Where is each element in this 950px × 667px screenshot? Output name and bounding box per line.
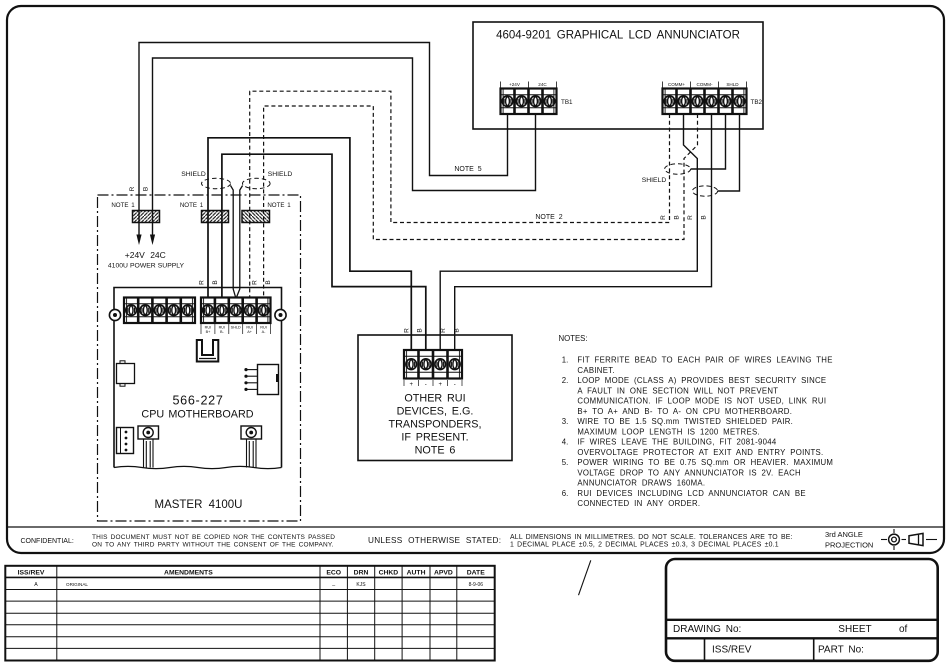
wire +24V red from TB1-1 to power supply [139,43,508,236]
svg-text:ALL DIMENSIONS IN MILLIMETRES.: ALL DIMENSIONS IN MILLIMETRES. DO NOT SC… [510,534,793,541]
svg-text:R: R [129,186,136,191]
svg-text:CONFIDENTIAL:: CONFIDENTIAL: [21,538,74,545]
LCD annunciator enclosure box [473,22,763,129]
svg-text:5.: 5. [562,458,569,467]
TB1 group ticks and labels [501,82,557,88]
svg-text:ISS/REV: ISS/REV [712,645,752,656]
svg-text:3.: 3. [562,417,569,426]
svg-text:-: - [454,382,456,388]
svg-text:ECO: ECO [326,570,341,577]
svg-text:RUI DEVICES INCLUDING LCD ANNU: RUI DEVICES INCLUDING LCD ANNUNCIATOR CA… [577,489,805,498]
svg-text:SHIELD: SHIELD [268,171,293,178]
svg-text:ANNUNCIATOR DRAWS 160MA.: ANNUNCIATOR DRAWS 160MA. [577,479,705,488]
svg-text:DRN: DRN [354,570,369,577]
mounting screw left [109,309,120,320]
motherboard RUI terminal block [201,298,271,324]
svg-text:NOTE 5: NOTE 5 [454,166,481,173]
TB2 group ticks and labels [663,82,747,88]
small component left [117,364,135,384]
ferrite bead F1 (note 1) [133,211,160,223]
svg-text:+24V: +24V [509,82,521,87]
svg-text:24C: 24C [150,250,166,260]
svg-text:-: - [425,382,427,388]
svg-text:SHLD: SHLD [726,82,739,87]
svg-text:8-9-06: 8-9-06 [469,582,484,588]
third angle projection symbol [881,529,937,550]
ferrite bead F2 (note 1) [202,211,229,223]
jumper bracket component [197,340,219,362]
wire RUI B+ red [208,138,411,350]
shield ellipse left + label [202,178,231,188]
svg-text:CHKD: CHKD [379,570,399,577]
title block [666,559,938,661]
svg-text:OTHER RUI: OTHER RUI [404,393,465,405]
svg-text:RUI: RUI [260,326,267,330]
svg-text:NOTE 1: NOTE 1 [267,202,291,209]
svg-text:TB1: TB1 [561,99,573,106]
svg-text:DEVICES, E.G.: DEVICES, E.G. [397,406,474,418]
svg-text:R: R [440,328,447,333]
svg-text:MAXIMUM LOOP LENGTH IS 1200 ME: MAXIMUM LOOP LENGTH IS 1200 METRES. [577,427,760,436]
cabinet boundary (dash-dot) [98,195,301,521]
svg-text:B: B [674,215,681,219]
svg-text:COMM-: COMM- [696,82,713,87]
svg-text:566-227: 566-227 [172,394,223,408]
svg-text:AMENDMENTS: AMENDMENTS [164,570,213,577]
shield ellipse right + label [242,178,270,188]
svg-text:POWER WIRING TO BE 0.75 SQ.mm: POWER WIRING TO BE 0.75 SQ.mm OR HEAVIER… [577,458,833,467]
svg-text:AUTH: AUTH [407,570,426,577]
svg-text:1 DECIMAL PLACE ±0.5, 2 DECIMA: 1 DECIMAL PLACE ±0.5, 2 DECIMAL PLACES ±… [510,541,779,548]
svg-text:6.: 6. [562,489,569,498]
svg-text:+: + [438,382,442,388]
svg-text:B: B [212,280,219,284]
wire 24C black from TB1-3 to power supply [153,58,536,235]
svg-text:APVD: APVD [434,570,453,577]
wire RUI B- black [222,154,426,350]
svg-text:+: + [409,382,413,388]
svg-text:COMM+: COMM+ [668,82,686,87]
svg-text:RUI: RUI [219,326,226,330]
terminal block TB2 [663,89,747,115]
svg-text:IF WIRES LEAVE THE BUILDING, F: IF WIRES LEAVE THE BUILDING, FIT 2081-90… [577,438,776,447]
4-pin connector right [258,365,279,395]
svg-text:VOLTAGE DROP TO ANY ANNUNCIATO: VOLTAGE DROP TO ANY ANNUNCIATOR IS 2V. E… [577,468,801,477]
svg-text:NOTE 6: NOTE 6 [415,445,456,457]
standoff left [138,426,159,439]
svg-text:WIRE TO BE 1.5 SQ.mm TWISTED S: WIRE TO BE 1.5 SQ.mm TWISTED SHIELDED PA… [577,417,793,426]
svg-text:PROJECTION: PROJECTION [825,541,873,550]
svg-text:B: B [143,187,150,191]
svg-text:3rd ANGLE: 3rd ANGLE [825,530,863,539]
wire COMM+ red from TB2-2 to RUI box [440,114,697,350]
svg-text:R: R [252,280,259,285]
standoff right [241,426,262,439]
svg-text:B+: B+ [206,330,212,334]
shield ellipse under TB2 upper [665,164,691,174]
motherboard bottom break (wavy) [114,466,282,468]
svg-text:ISS/REV: ISS/REV [18,570,45,577]
svg-text:SHLD: SHLD [231,326,241,330]
CPU motherboard outline [114,288,282,468]
svg-text:UNLESS OTHERWISE STATED:: UNLESS OTHERWISE STATED: [368,536,501,545]
svg-text:NOTE 2: NOTE 2 [535,214,562,221]
leader slash mark [579,560,591,595]
revision table [5,566,494,661]
svg-text:B: B [454,328,461,332]
RUI device polarity labels [404,380,462,386]
svg-text:B+ TO A+ AND B- TO A- ON CPU M: B+ TO A+ AND B- TO A- ON CPU MOTHERBOARD… [577,407,792,416]
svg-text:ON TO ANY THIRD PARTY WITHOUT: ON TO ANY THIRD PARTY WITHOUT THE CONSEN… [92,541,334,548]
svg-text:A: A [34,582,38,588]
wire RUI A- dashed from TB2-3 [264,106,698,298]
svg-text:NOTE 1: NOTE 1 [111,202,135,209]
svg-text:SHEET: SHEET [838,624,871,635]
svg-text:A FAULT IN ONE SECTION WILL NO: A FAULT IN ONE SECTION WILL NOT PREVENT [577,386,778,395]
svg-text:4604-9201 GRAPHICAL LCD ANN: 4604-9201 GRAPHICAL LCD ANNUNCIATOR [496,30,740,42]
wire RUI A+ dashed from TB2-1 [250,91,670,297]
svg-text:CPU MOTHERBOARD: CPU MOTHERBOARD [141,409,253,421]
other RUI devices box [358,335,512,461]
motherboard left terminal block [124,298,195,324]
edge connector 4-pin [117,428,134,454]
svg-text:ORIGINAL: ORIGINAL [66,582,88,587]
svg-text:PART No:: PART No: [818,645,864,656]
svg-text:B: B [701,215,708,219]
RUI device terminal block [404,350,462,379]
RUI terminal labels [201,324,271,334]
svg-text:4100U POWER SUPPLY: 4100U POWER SUPPLY [108,263,185,270]
svg-text:SHIELD: SHIELD [642,177,667,184]
svg-text:+24V: +24V [125,250,145,260]
svg-text:B: B [265,280,272,284]
svg-text:NOTE 1: NOTE 1 [180,202,204,209]
shield ellipse under TB2 lower [692,186,717,196]
svg-text:R: R [687,215,694,220]
svg-text:CONNECTED IN ANY ORDER.: CONNECTED IN ANY ORDER. [577,499,700,508]
svg-text:SHIELD: SHIELD [181,171,206,178]
svg-text:4.: 4. [562,438,569,447]
svg-text:NOTES:: NOTES: [559,334,588,343]
svg-text:MASTER 4100U: MASTER 4100U [154,499,242,511]
svg-text:THIS DOCUMENT MUST NOT BE COPI: THIS DOCUMENT MUST NOT BE COPIED NOR THE… [92,534,335,541]
svg-text:24C: 24C [538,82,547,87]
svg-text:CABINET.: CABINET. [577,366,615,375]
svg-text:R: R [660,215,667,220]
svg-text:DRAWING No:: DRAWING No: [673,624,741,635]
svg-text:A+: A+ [247,330,253,334]
svg-text:FIT FERRITE BEAD TO EACH PAIR: FIT FERRITE BEAD TO EACH PAIR OF WIRES L… [577,356,832,365]
svg-text:OVERVOLTAGE PROTECTOR AT EXIT: OVERVOLTAGE PROTECTOR AT EXIT AND ENTRY … [577,448,823,457]
svg-text:IF PRESENT.: IF PRESENT. [401,432,468,444]
svg-text:R: R [199,280,206,285]
svg-text:R: R [404,328,411,333]
svg-text:TRANSPONDERS,: TRANSPONDERS, [389,419,482,431]
mounting screw right [275,309,286,320]
svg-text:RUI: RUI [205,326,212,330]
terminal block TB1 [501,89,557,115]
wire COMM- black from TB2-4 to RUI box [455,114,712,350]
shield drain wires into SHLD terminal [231,186,236,299]
wire SHLD from TB2-6 to shield ellipse [718,114,740,191]
svg-text:DATE: DATE [467,570,485,577]
svg-text:COMMUNICATION. IF LOOP MODE IS: COMMUNICATION. IF LOOP MODE IS NOT USED,… [577,397,826,406]
svg-text:1.: 1. [562,356,569,365]
svg-text:TB2: TB2 [751,99,763,106]
svg-text:LOOP MODE (CLASS A) PROVIDES B: LOOP MODE (CLASS A) PROVIDES BEST SECURI… [577,376,826,385]
wire SHLD from TB2-5 to shield ellipse [691,114,726,169]
svg-text:2.: 2. [562,376,569,385]
svg-text:B: B [417,328,424,332]
svg-text:RUI: RUI [246,326,253,330]
svg-text:KJS: KJS [356,582,366,588]
footer separator line [7,526,944,528]
ferrite bead F3 (note 1) [242,211,270,223]
svg-text:of: of [899,624,908,635]
